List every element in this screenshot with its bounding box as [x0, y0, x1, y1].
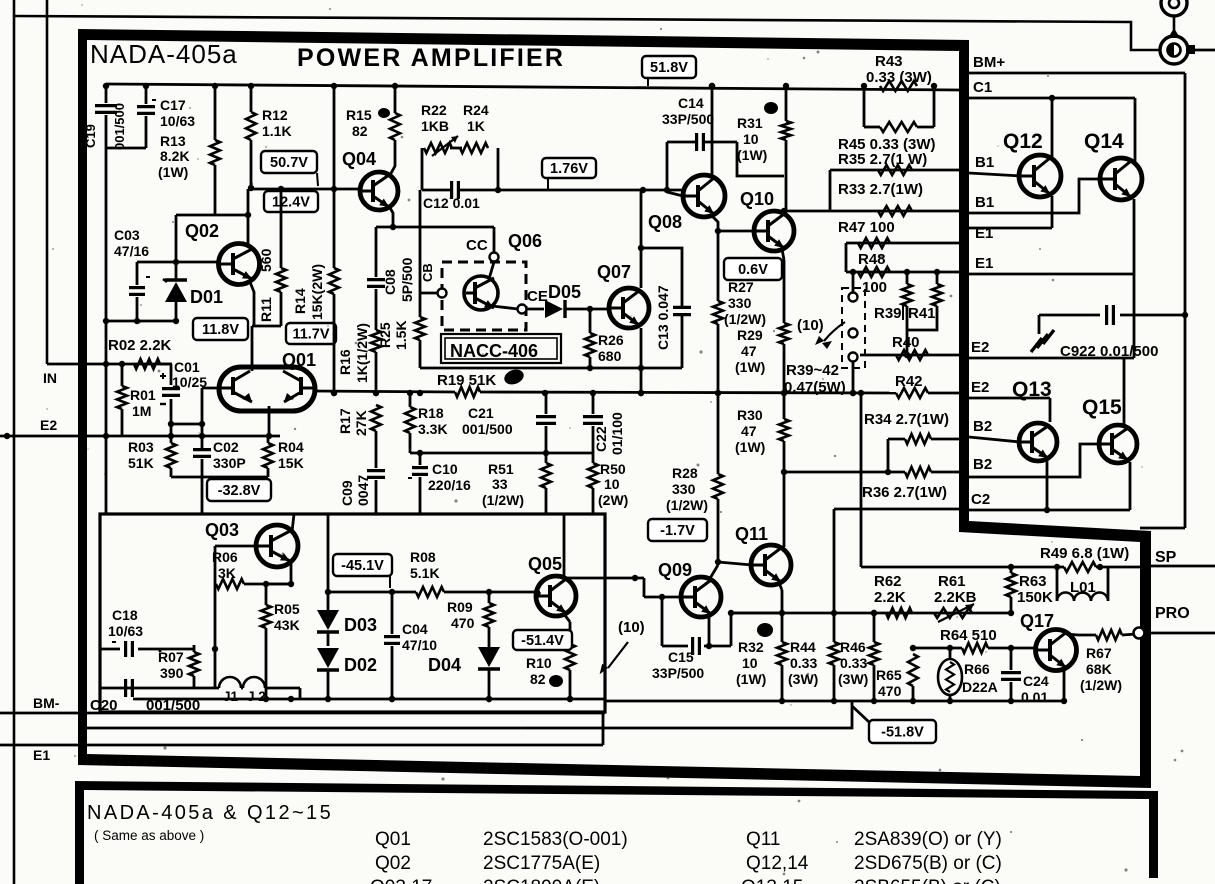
wire C2 from Q13 Q15 emitters — [969, 509, 1130, 512]
transistor Q11 — [751, 545, 791, 585]
diode D04 — [478, 647, 500, 667]
svg-text:R39~42: R39~42 — [786, 362, 839, 379]
block bottom wire — [410, 452, 593, 455]
svg-text:1.76V: 1.76V — [550, 161, 588, 177]
svg-text:R41: R41 — [908, 305, 936, 322]
svg-text:01/100: 01/100 — [609, 412, 625, 455]
svg-text:R22: R22 — [421, 102, 447, 118]
svg-text:C21: C21 — [468, 405, 494, 421]
capacitor C922 0.01/500 with ground — [1038, 315, 1041, 334]
svg-text:NACC-406: NACC-406 — [450, 341, 538, 361]
svg-text:Q01: Q01 — [375, 829, 411, 850]
voltage label -45.1V — [333, 554, 392, 576]
svg-text:R10: R10 — [526, 655, 552, 671]
resistor R27 and R28 column — [717, 231, 720, 301]
svg-text:(1/2W): (1/2W) — [1080, 677, 1122, 693]
svg-text:R62: R62 — [874, 573, 902, 590]
svg-text:D04: D04 — [428, 655, 461, 675]
Q06 emitter to CE lead — [492, 306, 518, 309]
capacitor C10 220/16 — [419, 453, 422, 465]
wire E2 input — [0, 435, 280, 438]
resistor R41 — [936, 272, 939, 284]
svg-text:47/10: 47/10 — [402, 637, 437, 653]
svg-text:R27: R27 — [728, 279, 754, 295]
diode D05 — [526, 308, 544, 311]
C01 to Q01 base wire — [171, 423, 202, 426]
resistor R63 150K — [1010, 567, 1013, 573]
svg-text:2.2KB: 2.2KB — [934, 589, 977, 606]
svg-text:SP: SP — [1155, 549, 1177, 566]
far right vertical wire — [1184, 73, 1187, 528]
svg-text:R61: R61 — [938, 573, 966, 590]
Q17 collector to PRO wire with R67 — [1066, 634, 1078, 635]
wire BM- bottom — [0, 712, 605, 715]
Q11 emitter lead — [779, 583, 782, 590]
resistor R08 5.1K — [416, 587, 444, 597]
wire E1 bottom — [0, 744, 603, 747]
svg-text:33P/500: 33P/500 — [662, 111, 714, 127]
transistor Q15 — [1099, 425, 1137, 463]
svg-text:D03: D03 — [344, 615, 377, 635]
svg-text:R33 2.7(1W): R33 2.7(1W) — [838, 181, 923, 198]
wire BM+ from border — [969, 72, 1185, 75]
transistor Q10 — [754, 211, 794, 251]
resistor R39 — [906, 272, 909, 284]
svg-text:1.1K: 1.1K — [262, 123, 292, 139]
capacitor C20 001/500 — [124, 679, 127, 697]
svg-text:R49 6.8 (1W): R49 6.8 (1W) — [1040, 545, 1129, 562]
svg-text:R36 2.7(1W): R36 2.7(1W) — [862, 484, 947, 501]
capacitor C02 330P — [193, 448, 211, 451]
connector jack top — [1161, 0, 1187, 16]
Q08 base wire — [667, 192, 683, 196]
svg-text:(1W): (1W) — [158, 164, 188, 180]
svg-text:1M: 1M — [132, 403, 151, 419]
svg-text:150K: 150K — [1017, 589, 1053, 606]
transistor Q08 — [683, 175, 725, 217]
wire E1-1 with resistor R47 — [846, 242, 961, 245]
Q11 collector lead — [779, 546, 784, 549]
resistor R45 parallel loop — [863, 86, 866, 127]
svg-text:1K(1/2W): 1K(1/2W) — [354, 323, 370, 383]
vertical joining E1 wire to inner box — [602, 712, 605, 745]
voltage label -51.8V — [869, 720, 936, 743]
svg-text:BM-: BM- — [33, 695, 60, 711]
svg-text:(3W): (3W) — [838, 671, 868, 687]
wire C1 to Q12 Q14 collectors — [969, 97, 1135, 100]
capacitor C04 47/10 — [391, 592, 394, 634]
transistor Q02 — [219, 244, 260, 285]
svg-text:11.8V: 11.8V — [202, 322, 239, 338]
svg-text:NADA-405a: NADA-405a — [90, 39, 238, 69]
resistor R51 — [545, 453, 548, 463]
svg-text:82: 82 — [352, 123, 368, 139]
svg-text:C03: C03 — [114, 227, 140, 243]
svg-text:(1/2W): (1/2W) — [482, 492, 524, 508]
Q10 emitter / R29 R30 column — [782, 249, 784, 260]
svg-text:5P/500: 5P/500 — [399, 257, 415, 302]
capacitor C14 — [666, 142, 669, 192]
Q14 collector wire — [1134, 98, 1137, 161]
svg-text:R14: R14 — [292, 288, 308, 314]
svg-text:10/63: 10/63 — [108, 623, 143, 639]
svg-text:B1: B1 — [975, 154, 994, 171]
svg-text:(10): (10) — [618, 619, 645, 636]
wire B2-2 to Q15 base — [969, 444, 1100, 477]
svg-text:Q03,17: Q03,17 — [370, 877, 432, 884]
svg-text:R09: R09 — [447, 599, 473, 615]
resistor R25 1.5K — [419, 190, 422, 317]
svg-text:POWER AMPLIFIER: POWER AMPLIFIER — [297, 44, 565, 72]
wire Q05 collector to Q09 base — [564, 577, 644, 580]
svg-text:R63: R63 — [1019, 573, 1047, 590]
svg-text:R40: R40 — [892, 334, 920, 351]
terminal CE — [518, 305, 527, 314]
resistor R09 470 — [488, 592, 491, 603]
svg-text:1KB: 1KB — [421, 118, 449, 134]
mid to SP column wire — [860, 393, 863, 567]
svg-text:C09: C09 — [339, 480, 355, 506]
svg-text:L01: L01 — [1070, 579, 1096, 596]
NACC-406 box — [441, 334, 561, 363]
svg-text:J1: J1 — [223, 689, 239, 704]
svg-text:R66: R66 — [964, 661, 990, 677]
resistor R14 15K(2W) — [333, 86, 336, 268]
svg-text:R50: R50 — [600, 461, 626, 477]
svg-text:(3W): (3W) — [788, 671, 818, 687]
svg-text:-51.4V: -51.4V — [521, 633, 564, 649]
C2 column wire — [833, 509, 836, 613]
svg-text:Q09: Q09 — [658, 560, 692, 580]
svg-text:E1: E1 — [975, 225, 993, 242]
transistor Q06 — [464, 276, 498, 310]
svg-text:Q10: Q10 — [740, 189, 774, 209]
svg-text:E1: E1 — [975, 255, 993, 272]
terminal CC — [490, 253, 499, 262]
svg-text:R19 51K: R19 51K — [437, 372, 496, 389]
svg-text:33P/500: 33P/500 — [652, 665, 704, 681]
svg-text:R04: R04 — [278, 439, 304, 455]
svg-text:R30: R30 — [737, 407, 763, 423]
svg-text:Q11: Q11 — [735, 524, 768, 544]
capacitor C13 loop — [641, 248, 682, 307]
svg-text:R35 2.7(1 W): R35 2.7(1 W) — [838, 151, 927, 168]
main schematic box thick border — [78, 29, 1151, 788]
svg-text:(1W): (1W) — [736, 671, 766, 687]
wire SP rail with resistor R49 — [861, 566, 1064, 569]
svg-text:10/63: 10/63 — [160, 113, 195, 129]
wire -51.8V return — [82, 701, 852, 728]
resistor R06 3K — [214, 546, 217, 584]
wire C2 inner — [834, 508, 961, 511]
resistor R11 560 — [280, 189, 283, 268]
svg-text:D02: D02 — [344, 655, 377, 675]
Q03 base wire — [215, 545, 258, 548]
CB to R25 wire — [420, 292, 438, 295]
svg-text:Q15: Q15 — [1082, 396, 1122, 419]
resistor R43 on rail — [880, 81, 917, 91]
svg-text:330P: 330P — [213, 455, 246, 471]
transistor Q13 — [1019, 423, 1057, 461]
svg-text:R47 100: R47 100 — [838, 219, 895, 236]
svg-text:D05: D05 — [548, 282, 581, 302]
Q03 emitter lead — [290, 560, 293, 584]
svg-text:J 2: J 2 — [247, 689, 266, 704]
svg-text:(2W): (2W) — [598, 492, 628, 508]
svg-text:Q14: Q14 — [1084, 130, 1124, 153]
svg-text:27K: 27K — [353, 410, 369, 436]
capacitor C19 — [105, 86, 108, 103]
svg-text:B2: B2 — [973, 456, 992, 473]
Q09 collector lead — [709, 565, 718, 580]
wire R36 to B2-2 — [784, 471, 905, 474]
svg-text:Q12,14: Q12,14 — [746, 853, 809, 874]
51.8V top supply rail — [106, 84, 961, 90]
Q04 base wire — [248, 188, 360, 191]
wire IN — [47, 363, 172, 366]
svg-text:E2: E2 — [971, 339, 989, 356]
wire into Q01 collector top — [251, 326, 254, 371]
svg-text:390: 390 — [160, 665, 184, 681]
Q05 collector wire — [563, 514, 566, 578]
-51.8V bottom rail — [605, 700, 1064, 703]
svg-text:R08: R08 — [410, 549, 436, 565]
svg-text:3K: 3K — [218, 565, 236, 581]
svg-text:E2: E2 — [971, 379, 989, 396]
svg-text:D01: D01 — [190, 287, 223, 307]
zener diode D01 — [175, 262, 178, 281]
left margin vertical line 1 — [13, 0, 16, 884]
svg-text:R16: R16 — [337, 349, 353, 375]
svg-text:R26: R26 — [598, 332, 624, 348]
svg-text:C12 0.01: C12 0.01 — [423, 195, 480, 211]
svg-text:( Same as above ): ( Same as above ) — [94, 828, 204, 843]
svg-text:10: 10 — [743, 131, 759, 147]
svg-text:(1/2W): (1/2W) — [666, 497, 708, 513]
voltage label -32.8V — [207, 479, 271, 501]
svg-text:Q01: Q01 — [282, 350, 316, 370]
inner box outline — [100, 514, 605, 712]
transistor Q17 — [1036, 630, 1077, 671]
svg-text:Q05: Q05 — [528, 554, 562, 574]
svg-text:CC: CC — [466, 237, 488, 254]
wire B2-1 to Q13 base — [969, 437, 1020, 442]
svg-text:-1.7V: -1.7V — [660, 523, 695, 539]
svg-text:R67: R67 — [1086, 645, 1112, 661]
svg-text:470: 470 — [451, 615, 475, 631]
wire B1-1 with resistor R35 — [830, 169, 961, 172]
voltage label -51.4V — [513, 630, 572, 650]
svg-text:Q02: Q02 — [375, 853, 411, 874]
connector jack main — [1160, 36, 1188, 64]
wire E2-2 to Q13 collector — [969, 397, 1050, 400]
svg-text:R29: R29 — [737, 327, 763, 343]
svg-text:C04: C04 — [402, 621, 428, 637]
Q03 collector lead — [292, 514, 294, 532]
capacitor C08 and resistor R16 column — [375, 227, 378, 277]
svg-text:10/25: 10/25 — [172, 374, 207, 390]
voltage label 51.8V — [642, 56, 696, 78]
voltage label 1.76V — [542, 158, 596, 178]
transistor Q05 — [536, 576, 576, 616]
svg-text:0.33: 0.33 — [790, 655, 817, 671]
SP wire out — [1151, 565, 1215, 568]
Q06 collector to CC lead — [489, 262, 494, 279]
Q17 base wire R64 510 — [913, 647, 962, 650]
Q01 base left wire — [202, 387, 221, 390]
wire to border corner — [1140, 527, 1185, 530]
voltage label 11.8V — [193, 318, 248, 340]
voltage label 12.4V — [264, 191, 318, 212]
svg-text:0.33: 0.33 — [840, 655, 867, 671]
resistor R65 470 — [908, 654, 918, 686]
transistor Q14 — [1100, 158, 1142, 200]
wire E2-1 with resistor R40 — [860, 354, 961, 357]
svg-text:50.7V: 50.7V — [270, 155, 308, 171]
thermistor R66 D22A — [949, 648, 952, 660]
wire R25/R26 bottom — [420, 367, 590, 370]
wire E2-2 mid rail with resistor R42 — [896, 388, 928, 398]
main wire 1.76V node — [422, 189, 451, 192]
transistor pair Q01 — [219, 367, 315, 411]
svg-text:R31: R31 — [737, 115, 763, 131]
resistor R26 680 — [589, 309, 592, 333]
svg-text:15K: 15K — [278, 455, 304, 471]
resistor R01 1M — [121, 364, 124, 386]
Q06 dashed box — [442, 262, 526, 330]
Q08 emitter wire — [710, 214, 718, 231]
block bottom wire to box — [171, 476, 268, 479]
transistor Q03 — [256, 525, 298, 567]
Q07 emitter wire — [640, 328, 643, 368]
svg-text:0.6V: 0.6V — [738, 262, 768, 278]
resistor R17 C09 column — [371, 405, 381, 431]
capacitor C22 — [592, 393, 595, 414]
Q07 collector wire — [640, 190, 643, 288]
svg-text:C1: C1 — [973, 79, 992, 96]
svg-text:R42: R42 — [895, 373, 923, 390]
svg-text:Q08: Q08 — [648, 212, 682, 232]
transistor Q04 — [360, 172, 398, 210]
diode D03 — [327, 514, 330, 611]
svg-text:IN: IN — [43, 370, 57, 386]
resistor fusible third — [873, 613, 876, 642]
wire B1-1 to Q12 base — [969, 173, 1021, 176]
svg-text:R05: R05 — [274, 601, 300, 617]
svg-text:R48: R48 — [858, 251, 886, 268]
resistor R02 2.2K on IN wire — [134, 359, 160, 369]
svg-text:(1W): (1W) — [735, 359, 765, 375]
svg-text:2SB655(B) or (C): 2SB655(B) or (C) — [854, 877, 1001, 884]
svg-text:R12: R12 — [262, 107, 288, 123]
wire B1-2 with resistor R33 — [784, 210, 961, 213]
mid rail with resistor R19 — [313, 391, 455, 392]
svg-text:R28: R28 — [672, 465, 698, 481]
left margin vertical line 2 — [46, 0, 49, 364]
connector right square — [1186, 45, 1195, 54]
resistor R50 — [592, 453, 595, 463]
Q02 collector loop — [247, 189, 250, 215]
svg-text:C08: C08 — [382, 269, 398, 295]
output rail wire — [731, 612, 1011, 615]
left column vertical — [105, 148, 108, 514]
svg-text:R24: R24 — [463, 102, 489, 118]
svg-text:(1W): (1W) — [737, 147, 767, 163]
svg-text:330: 330 — [728, 295, 752, 311]
svg-text:68K: 68K — [1086, 661, 1112, 677]
transistor Q09 — [681, 577, 721, 617]
inductor L01 — [1056, 567, 1059, 601]
PRO terminal — [1134, 628, 1145, 639]
svg-text:CE: CE — [527, 288, 548, 305]
capacitor C12 — [450, 181, 453, 199]
svg-text:470: 470 — [878, 683, 902, 699]
svg-text:560: 560 — [258, 248, 274, 272]
svg-text:NADA-405a & Q12~15: NADA-405a & Q12~15 — [87, 802, 333, 824]
svg-text:R11: R11 — [258, 297, 274, 322]
Q02 emitter lead — [250, 282, 281, 326]
inner bottom rail — [133, 698, 605, 701]
svg-text:12.4V: 12.4V — [272, 195, 310, 211]
R06 left column — [214, 584, 217, 688]
svg-text:R43: R43 — [875, 53, 903, 70]
resistor R05 43K — [265, 584, 268, 605]
svg-text:001/500: 001/500 — [112, 103, 127, 150]
svg-text:R51: R51 — [488, 461, 514, 477]
svg-text:Q02: Q02 — [185, 221, 219, 241]
resistor R18 — [409, 393, 412, 407]
svg-text:E2: E2 — [40, 417, 57, 433]
svg-text:C19: C19 — [83, 124, 98, 148]
svg-text:-45.1V: -45.1V — [341, 558, 384, 574]
svg-text:R39: R39 — [874, 305, 902, 322]
svg-text:47: 47 — [741, 423, 757, 439]
svg-text:BM+: BM+ — [973, 54, 1005, 71]
resistor R61 2.2KB variable — [934, 608, 972, 618]
capacitor C17 — [145, 86, 148, 104]
vertical joining B1 wires — [829, 170, 832, 211]
Q17 emitter wire — [1063, 668, 1066, 701]
svg-text:C14: C14 — [678, 95, 704, 111]
svg-text:R17: R17 — [337, 408, 353, 434]
svg-text:0.33 (3W): 0.33 (3W) — [866, 69, 932, 86]
svg-text:43K: 43K — [274, 617, 300, 633]
svg-text:51.8V: 51.8V — [650, 60, 688, 76]
svg-text:1K: 1K — [467, 118, 485, 134]
svg-text:8.2K: 8.2K — [160, 148, 190, 164]
top horizontal wire to connector — [14, 16, 1160, 50]
capacitor C24 0.01 — [1010, 648, 1013, 670]
svg-text:-51.8V: -51.8V — [881, 725, 924, 741]
Q09 emitter lead — [708, 615, 711, 646]
svg-text:B2: B2 — [973, 418, 992, 435]
connector arrow — [1173, 16, 1176, 30]
svg-text:10: 10 — [604, 476, 620, 492]
svg-text:2SC1775A(E): 2SC1775A(E) — [483, 853, 600, 874]
svg-text:Q12: Q12 — [1003, 130, 1043, 153]
svg-text:(10): (10) — [797, 317, 824, 334]
svg-text:R64 510: R64 510 — [940, 627, 997, 644]
capacitor C15 33P/500 loop — [661, 597, 664, 646]
svg-text:33: 33 — [492, 476, 508, 492]
capacitor C01 10/25 — [160, 363, 171, 366]
svg-text:Q06: Q06 — [508, 231, 542, 251]
Q01 emitter bottom wire — [268, 406, 271, 436]
resistor R04 15K — [267, 436, 270, 443]
wire B1-2 to Q14 base — [969, 179, 1102, 213]
Q02 base wire — [137, 261, 218, 264]
svg-text:C15: C15 — [668, 649, 694, 665]
